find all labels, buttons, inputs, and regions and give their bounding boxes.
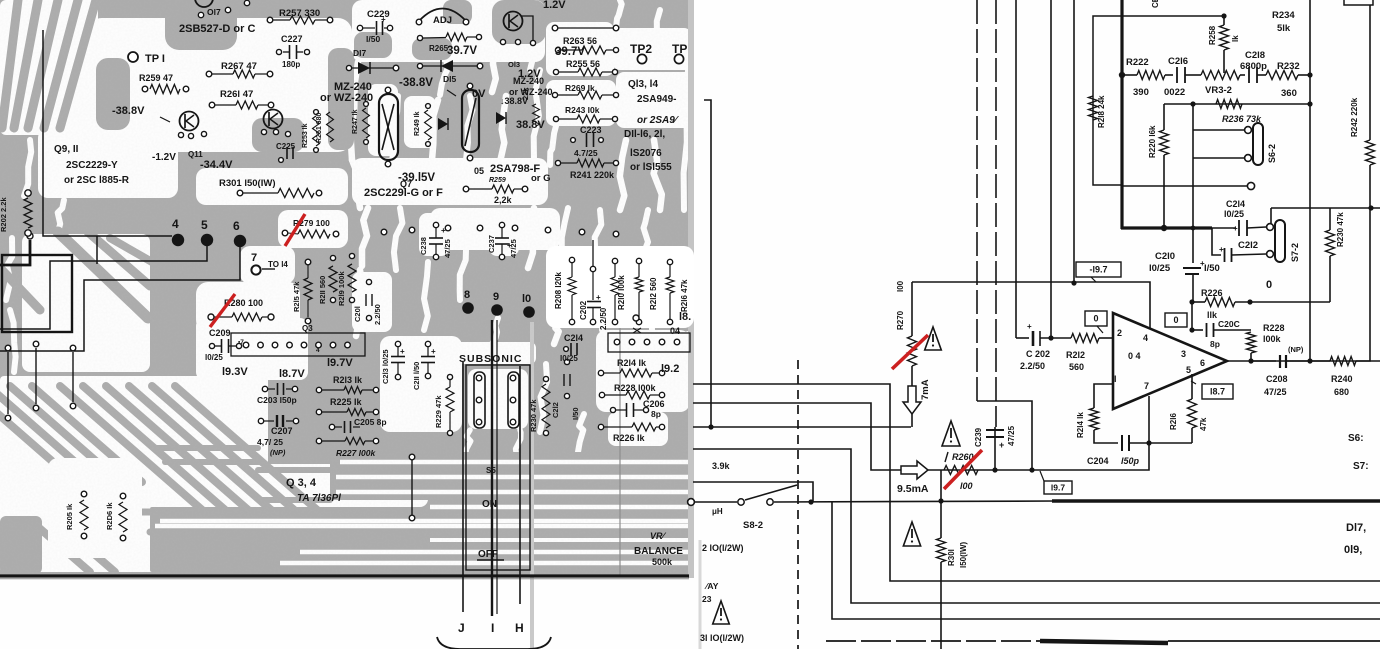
svg-text:390: 390 xyxy=(1133,87,1149,98)
svg-text:R259: R259 xyxy=(489,177,506,184)
wire top y16 xyxy=(1122,15,1224,17)
diode D11 small xyxy=(438,118,448,130)
svg-text:R253 Ik: R253 Ik xyxy=(302,123,309,148)
svg-text:C209: C209 xyxy=(209,328,231,338)
svg-text:2SC2229-Y: 2SC2229-Y xyxy=(66,160,118,171)
capacitor C205 8p xyxy=(329,424,334,429)
svg-text:+: + xyxy=(1219,245,1224,254)
svg-text:5: 5 xyxy=(201,218,208,232)
svg-text:l/50: l/50 xyxy=(1204,263,1220,274)
svg-text:S6:: S6: xyxy=(1348,433,1364,444)
svg-text:R240: R240 xyxy=(1331,374,1353,384)
svg-text:05: 05 xyxy=(474,166,484,176)
rectangle outline bottom-left xyxy=(2,255,72,332)
svg-text:R2l4 Ik: R2l4 Ik xyxy=(617,358,647,368)
transistor Q11 body xyxy=(264,110,283,129)
svg-text:l9.3V: l9.3V xyxy=(222,366,248,378)
svg-text:04: 04 xyxy=(670,326,680,336)
svg-text:C205 8p: C205 8p xyxy=(354,417,387,427)
svg-text:S6-2: S6-2 xyxy=(1267,144,1277,163)
svg-text:C238: C238 xyxy=(419,237,428,255)
resistor R226L 1k xyxy=(604,426,632,428)
switch S8-2 xyxy=(738,499,744,505)
svg-text:R2l3 Ik: R2l3 Ik xyxy=(333,375,363,385)
svg-text:C2l8: C2l8 xyxy=(1245,50,1265,61)
svg-text:R2II 560: R2II 560 xyxy=(318,276,327,304)
svg-text:39.7V: 39.7V xyxy=(447,45,477,57)
capacitor C207 4.7/25 xyxy=(258,418,263,423)
svg-text:C2l0: C2l0 xyxy=(1155,251,1175,262)
resistor R301 schematic xyxy=(940,470,942,538)
svg-text:47/25: 47/25 xyxy=(1007,425,1016,446)
box fragment top right xyxy=(1344,0,1373,5)
svg-text:(NP): (NP) xyxy=(270,448,286,457)
connector brace xyxy=(437,637,551,649)
svg-text:4: 4 xyxy=(316,347,320,354)
svg-text:SUBSONIC: SUBSONIC xyxy=(459,353,522,365)
jumper wire right xyxy=(411,460,413,515)
red mark on R270 xyxy=(892,335,928,369)
svg-text:TO l4: TO l4 xyxy=(268,260,288,269)
resistor R232 360 xyxy=(1266,71,1298,80)
svg-text:S7-2: S7-2 xyxy=(1290,243,1300,262)
svg-text:R243 l0k: R243 l0k xyxy=(565,105,600,115)
svg-text:+: + xyxy=(596,293,601,302)
svg-text:R230 47k: R230 47k xyxy=(1336,212,1345,247)
svg-text:560: 560 xyxy=(1069,362,1084,372)
svg-text:4: 4 xyxy=(172,217,179,231)
svg-text:lS2076: lS2076 xyxy=(630,148,662,159)
wire from connector pad 4 xyxy=(43,30,172,236)
vertical wire x832 xyxy=(832,502,1380,619)
resistor R242 220k xyxy=(1369,165,1371,208)
potentiometer VR3-2 xyxy=(1201,71,1240,80)
wire R212 to pin2 xyxy=(1099,337,1113,339)
wire W2 xyxy=(0,244,207,329)
capacitor C212 schematic xyxy=(1212,228,1221,255)
svg-text:Q 3, 4: Q 3, 4 xyxy=(286,477,317,489)
white routing areas xyxy=(0,0,98,135)
svg-text:R242 220k: R242 220k xyxy=(1350,97,1359,137)
svg-text:R208 l20k: R208 l20k xyxy=(554,272,563,309)
wire R226 right up to y208 xyxy=(1329,256,1331,302)
svg-text:3.9k: 3.9k xyxy=(712,461,731,471)
svg-text:2.2/50: 2.2/50 xyxy=(1020,361,1045,371)
svg-text:C2l3 l0/25: C2l3 l0/25 xyxy=(381,349,390,384)
svg-text:+: + xyxy=(381,15,386,24)
wire x1310 vertical xyxy=(1309,0,1311,361)
bus wire y482 xyxy=(693,482,813,502)
svg-text:Q3: Q3 xyxy=(302,324,313,333)
svg-text:ADJ: ADJ xyxy=(433,15,452,26)
svg-text:+: + xyxy=(431,347,436,356)
svg-text:R2l2 560: R2l2 560 xyxy=(649,277,658,310)
svg-text:BALANCE: BALANCE xyxy=(634,546,683,557)
capacitor C206 8p schematic xyxy=(1206,323,1208,337)
PCB board edge xyxy=(0,574,689,577)
svg-text:0V: 0V xyxy=(472,88,486,100)
svg-text:+: + xyxy=(999,440,1004,450)
PCB copper ground plane xyxy=(0,0,692,577)
transistor pad Q2 xyxy=(633,315,639,321)
boxed 0 second xyxy=(1165,313,1187,327)
svg-text:μH: μH xyxy=(712,507,723,516)
svg-text:⁄AY: ⁄AY xyxy=(704,581,719,591)
svg-text:R267 47: R267 47 xyxy=(221,61,257,72)
svg-text:R265: R265 xyxy=(429,44,449,53)
wire y208 xyxy=(1271,207,1380,209)
svg-text:C207: C207 xyxy=(271,426,293,436)
svg-text:7: 7 xyxy=(251,252,257,264)
svg-text:l: l xyxy=(1114,374,1117,384)
svg-text:R2l8 24k: R2l8 24k xyxy=(1097,95,1106,128)
resistor R266 xyxy=(423,37,446,40)
svg-text:Dl5: Dl5 xyxy=(443,74,457,84)
wire y186 with terminal xyxy=(1122,185,1247,187)
svg-text:R241 220k: R241 220k xyxy=(570,170,615,180)
switch S7-2 wires xyxy=(1270,208,1272,223)
svg-text:R226 Ik: R226 Ik xyxy=(613,433,646,443)
svg-text:R251 680: R251 680 xyxy=(316,113,323,143)
boxed 18.7 xyxy=(1191,381,1196,384)
svg-text:R263 56: R263 56 xyxy=(563,36,597,46)
svg-text:R2l5 47k: R2l5 47k xyxy=(292,281,301,312)
jumper wires left xyxy=(35,348,37,404)
resistor R220 16k xyxy=(1163,104,1165,130)
bottom broken line y641 xyxy=(826,640,1040,642)
svg-text:C2l4: C2l4 xyxy=(564,333,583,343)
svg-text:TA 7l36Pl: TA 7l36Pl xyxy=(297,493,341,504)
cut component fragment left edge xyxy=(688,499,695,506)
svg-text:47k: 47k xyxy=(1199,417,1208,431)
svg-text:l00: l00 xyxy=(896,280,905,292)
svg-text:4: 4 xyxy=(1143,333,1148,343)
svg-text:2SC229l-G or F: 2SC229l-G or F xyxy=(364,187,443,199)
wire pin1 xyxy=(1094,384,1113,408)
svg-text:4.7/25: 4.7/25 xyxy=(574,148,598,158)
svg-text:R220 l6k: R220 l6k xyxy=(1148,125,1157,158)
switch S6-2 xyxy=(1245,127,1252,134)
switch S6-2 wires xyxy=(1192,104,1194,159)
diagonal traces bottom-left xyxy=(0,386,76,482)
transistor Q15 body xyxy=(504,12,523,31)
svg-text:+: + xyxy=(1233,224,1238,233)
svg-text:0: 0 xyxy=(1173,315,1178,325)
capacitor C214 10/25 schematic xyxy=(1212,227,1236,229)
svg-text:C202: C202 xyxy=(579,300,588,320)
svg-text:R205 Ik: R205 Ik xyxy=(65,503,74,530)
svg-text:R2l6 47k: R2l6 47k xyxy=(680,279,689,312)
svg-text:l8.7: l8.7 xyxy=(1210,387,1225,397)
wire S8-2 to bus xyxy=(774,501,1056,502)
svg-text:4,7/ 25: 4,7/ 25 xyxy=(257,437,283,447)
svg-text:-l9.7: -l9.7 xyxy=(1089,265,1107,275)
svg-text:R227 l00k: R227 l00k xyxy=(336,448,376,458)
svg-text:R2l9 100k: R2l9 100k xyxy=(337,271,346,306)
svg-text:-38.8V: -38.8V xyxy=(399,77,433,89)
svg-text:9.5mA: 9.5mA xyxy=(897,483,929,495)
svg-text:DIl-l6, 2l,: DIl-l6, 2l, xyxy=(624,129,665,140)
white clearance channels xyxy=(351,62,359,160)
resistor R216 47k schematic xyxy=(1188,399,1197,428)
svg-text:l8.7V: l8.7V xyxy=(279,368,305,380)
svg-text:C227: C227 xyxy=(281,34,303,44)
svg-text:R2D6 Ik: R2D6 Ik xyxy=(105,502,114,530)
row2 wire y104 xyxy=(1164,103,1310,105)
svg-text:-38.8V: -38.8V xyxy=(112,105,145,117)
capacitor C210 10/25 xyxy=(1183,267,1201,269)
current arrow 9.5mA xyxy=(901,461,928,479)
wire x1193 down xyxy=(1192,159,1194,263)
svg-text:0: 0 xyxy=(1266,279,1272,291)
svg-text:C20l: C20l xyxy=(353,306,362,322)
wire pin2b row y330 xyxy=(1189,327,1194,332)
svg-text:C237: C237 xyxy=(487,235,496,253)
svg-text:S7:: S7: xyxy=(1353,461,1369,472)
svg-text:I/50: I/50 xyxy=(571,407,580,420)
capacitor C203 150p xyxy=(262,386,267,391)
svg-text:47/25: 47/25 xyxy=(509,239,518,258)
resistor R218 24k xyxy=(1089,96,1098,120)
bus wire y449 xyxy=(693,449,1380,603)
svg-text:R2l0 l00k: R2l0 l00k xyxy=(617,275,626,310)
svg-text:R301 l50(IW): R301 l50(IW) xyxy=(219,178,276,189)
svg-text:(NP): (NP) xyxy=(1288,345,1304,354)
svg-text:l0/25: l0/25 xyxy=(1149,263,1171,274)
svg-text:R225 Ik: R225 Ik xyxy=(330,397,363,407)
IC Q3 pad box xyxy=(231,333,365,356)
svg-text:VR3-2: VR3-2 xyxy=(1205,85,1232,96)
switch column lines xyxy=(462,362,464,612)
wire W3 xyxy=(0,244,240,351)
white pocket resistor columns xyxy=(546,246,694,328)
capacitor C216 0022 xyxy=(1165,74,1173,76)
svg-text:-34.4V: -34.4V xyxy=(200,159,233,171)
svg-text:500k: 500k xyxy=(652,557,673,567)
svg-text:7: 7 xyxy=(1144,381,1149,391)
svg-text:R270: R270 xyxy=(896,310,905,330)
test point TP1 xyxy=(128,52,138,62)
svg-text:R30l: R30l xyxy=(947,549,956,566)
capacitor C206L 8p xyxy=(626,403,628,417)
svg-text:l00k: l00k xyxy=(1263,334,1282,344)
small box top-left of opamp area xyxy=(1093,16,1122,185)
svg-text:8p: 8p xyxy=(1210,339,1220,349)
svg-text:llk: llk xyxy=(1207,310,1218,320)
svg-text:23: 23 xyxy=(702,594,712,604)
wire C204 node to R216 xyxy=(1149,442,1192,444)
bus wire y427 xyxy=(693,426,911,428)
svg-text:R234: R234 xyxy=(1272,10,1295,21)
svg-text:7mA: 7mA xyxy=(920,379,931,400)
svg-text:l9.2: l9.2 xyxy=(661,363,679,375)
bottom horizontal traces xyxy=(150,507,692,572)
red mark on R280 xyxy=(210,294,235,327)
svg-text:C223: C223 xyxy=(580,125,602,135)
subsonic pads xyxy=(476,375,482,381)
svg-text:or 2SC l885-R: or 2SC l885-R xyxy=(64,175,130,186)
svg-text:l0/25: l0/25 xyxy=(205,353,223,362)
svg-text:C229: C229 xyxy=(367,9,390,20)
resistor R230 47k schematic xyxy=(1326,230,1335,256)
svg-text:-1.2V: -1.2V xyxy=(152,152,176,163)
capacitor C202 2.2/50 xyxy=(1016,337,1029,339)
boxed 19.7 xyxy=(1040,471,1044,481)
svg-text:l8.: l8. xyxy=(679,311,691,323)
svg-text:CƉ2: CƉ2 xyxy=(1151,0,1160,8)
resistor R212 560 xyxy=(1071,334,1099,343)
dashed vertical x798 xyxy=(797,360,799,649)
svg-text:TP I: TP I xyxy=(145,53,165,65)
svg-text:+: + xyxy=(1027,322,1032,331)
svg-text:6800p: 6800p xyxy=(1240,61,1267,72)
svg-text:C2l6: C2l6 xyxy=(1168,56,1188,67)
svg-text:680: 680 xyxy=(1334,387,1349,397)
bus wire y502 xyxy=(693,501,737,503)
svg-text:R247 Ik: R247 Ik xyxy=(352,109,359,134)
boxed 0 near pin2 xyxy=(1085,311,1107,326)
svg-text:3l lO(l/2W): 3l lO(l/2W) xyxy=(700,633,744,643)
wire C202 to R212 xyxy=(1040,337,1071,339)
capacitor C239 47/25 xyxy=(994,427,996,470)
svg-text:C2l2: C2l2 xyxy=(1238,240,1258,251)
svg-text:or lSl555: or lSl555 xyxy=(630,162,672,173)
svg-text:R229 47k: R229 47k xyxy=(434,395,443,428)
svg-text:360: 360 xyxy=(1281,88,1297,99)
red mark on R279 xyxy=(285,214,305,246)
current arrow 7mA xyxy=(903,386,921,414)
bold supply wire xyxy=(1120,0,1123,229)
subsonic tall rectangle xyxy=(466,365,530,570)
resistor R214 1k schematic xyxy=(1090,408,1099,430)
resistor R270 100 xyxy=(911,282,913,336)
svg-text:S8-2: S8-2 xyxy=(743,520,763,531)
svg-text:C2l4: C2l4 xyxy=(1226,199,1245,209)
wire pin7 xyxy=(1148,396,1150,443)
svg-text:0: 0 xyxy=(1093,314,1098,324)
svg-text:47/25: 47/25 xyxy=(1264,387,1287,397)
svg-text:Ol3: Ol3 xyxy=(508,60,520,69)
wire top right with pads xyxy=(558,27,613,29)
svg-text:2 lO(l/2W): 2 lO(l/2W) xyxy=(702,543,744,553)
switch S7-2 xyxy=(1267,224,1274,231)
row resistor R222 390 xyxy=(1122,74,1137,76)
svg-text:lk: lk xyxy=(1231,35,1240,42)
warning triangle top xyxy=(925,327,942,350)
svg-text:R228: R228 xyxy=(1263,323,1285,333)
IC Q4 pad box xyxy=(608,333,690,352)
svg-text:1.2V: 1.2V xyxy=(543,0,566,11)
svg-text:2.2/50: 2.2/50 xyxy=(373,304,382,325)
wire main y470 xyxy=(928,443,1149,470)
svg-text:0022: 0022 xyxy=(1164,87,1185,98)
svg-text:R249 Ik: R249 Ik xyxy=(414,111,421,136)
red mark on R260 xyxy=(944,450,982,489)
svg-text:22k: 22k xyxy=(521,87,530,100)
svg-text:0 4: 0 4 xyxy=(1128,351,1141,361)
svg-text:3: 3 xyxy=(1181,349,1186,359)
svg-text:C239: C239 xyxy=(974,427,983,447)
coil body 2 xyxy=(462,90,479,152)
op-amp 04 triangle xyxy=(1113,313,1227,409)
svg-text:l9.7: l9.7 xyxy=(1051,483,1065,493)
svg-text:38.8V: 38.8V xyxy=(516,119,545,131)
svg-text:Ol7: Ol7 xyxy=(207,7,221,17)
thick border line y501 xyxy=(1052,499,1380,502)
svg-text:8p: 8p xyxy=(651,409,661,419)
svg-text:l0/25: l0/25 xyxy=(1224,209,1244,219)
svg-text:9: 9 xyxy=(493,291,499,303)
svg-text:Dl7: Dl7 xyxy=(353,48,367,58)
svg-text:C2II l/50: C2II l/50 xyxy=(412,362,421,390)
svg-text:R26l 47: R26l 47 xyxy=(220,89,253,100)
svg-text:R2l2: R2l2 xyxy=(1066,350,1085,360)
svg-text:C203 l50p: C203 l50p xyxy=(257,395,297,405)
boxed -19.7 xyxy=(1076,262,1121,277)
capacitor C208 47/25 xyxy=(1251,360,1276,362)
scan streaks xyxy=(530,322,534,649)
transistor Q17 pads xyxy=(195,0,213,7)
svg-text:Dl7,: Dl7, xyxy=(1346,522,1366,534)
capacitor C218 6800p xyxy=(1240,74,1245,76)
svg-text:or 2SA9⁄: or 2SA9⁄ xyxy=(637,115,680,126)
resistor R228 100k schematic xyxy=(1247,332,1256,353)
svg-text:Ql3, l4: Ql3, l4 xyxy=(628,79,658,90)
svg-text:R230 47k: R230 47k xyxy=(529,399,538,432)
svg-text:R202 2.2k: R202 2.2k xyxy=(0,197,8,232)
svg-text:R259 47: R259 47 xyxy=(139,73,173,83)
svg-text:l50p: l50p xyxy=(1121,456,1140,466)
svg-text:l00: l00 xyxy=(960,481,973,491)
warning triangle mid xyxy=(903,522,920,546)
resistor R258 1k xyxy=(1223,16,1225,25)
svg-text:5: 5 xyxy=(1186,365,1191,375)
svg-text:S5: S5 xyxy=(486,466,496,475)
row3 R226 11k xyxy=(1189,299,1194,304)
copper islands xyxy=(165,0,237,50)
vertical dashed bundle xyxy=(976,0,978,401)
resistor R236 73k xyxy=(1216,100,1242,109)
svg-text:R255 56: R255 56 xyxy=(566,59,600,69)
svg-text:J: J xyxy=(458,621,465,635)
svg-text:47/25: 47/25 xyxy=(443,239,452,258)
svg-text:R2l6: R2l6 xyxy=(1169,413,1178,430)
coil body 1 xyxy=(379,94,398,160)
bus wire y403 xyxy=(693,403,901,470)
svg-text:R2l4 lk: R2l4 lk xyxy=(1076,412,1085,438)
svg-text:2.2/50: 2.2/50 xyxy=(599,307,608,330)
svg-text:C 202: C 202 xyxy=(1026,349,1050,359)
svg-text:C204: C204 xyxy=(1087,456,1109,466)
svg-text:2: 2 xyxy=(1117,328,1122,338)
svg-text:+: + xyxy=(400,347,405,356)
svg-text:OFF: OFF xyxy=(478,549,498,560)
op-amp output wire xyxy=(1227,360,1380,362)
wire pin4 row y282 xyxy=(912,282,1150,328)
svg-text:Q9, II: Q9, II xyxy=(54,144,79,155)
svg-text:6: 6 xyxy=(233,219,240,233)
svg-text:I: I xyxy=(491,621,494,635)
svg-text:R258: R258 xyxy=(1208,25,1217,45)
svg-text:0l9,: 0l9, xyxy=(1344,544,1362,556)
svg-text:C208: C208 xyxy=(1266,374,1288,384)
svg-text:5lk: 5lk xyxy=(1277,23,1291,34)
bus wire y384 xyxy=(693,384,1380,581)
svg-text:R226: R226 xyxy=(1201,288,1223,298)
svg-text:l9.7V: l9.7V xyxy=(327,357,353,369)
svg-text:2SA949-: 2SA949- xyxy=(637,94,676,105)
svg-text:l50(lW): l50(lW) xyxy=(959,541,968,568)
